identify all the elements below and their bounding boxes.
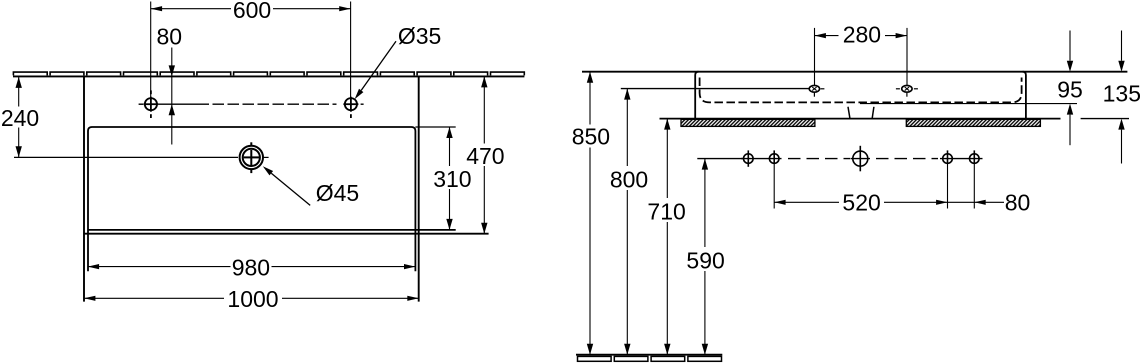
dimension 80 (front view)	[948, 201, 1005, 203]
mounting bracket hatched left	[681, 119, 815, 126]
faucet hole right (top view)	[343, 97, 358, 118]
svg-text:Ø35: Ø35	[398, 23, 441, 49]
svg-text:240: 240	[1, 105, 39, 131]
dimension 850	[589, 72, 591, 355]
svg-text:80: 80	[1005, 190, 1031, 216]
svg-text:1000: 1000	[227, 286, 278, 312]
svg-text:600: 600	[233, 0, 271, 23]
svg-text:Ø45: Ø45	[316, 180, 359, 206]
dimension 600	[151, 8, 351, 10]
faucet hole centerline (top view)	[139, 103, 364, 105]
svg-text:95: 95	[1057, 76, 1083, 102]
basin inner rim bottom edge (top view)	[88, 229, 456, 231]
dimension 310	[449, 127, 451, 230]
dimension 95	[1069, 31, 1071, 146]
drain hole (top view)	[240, 142, 263, 173]
extension lines below fixing circles	[774, 164, 974, 209]
fixing circle 1 (front view)	[744, 150, 754, 166]
floor tiles	[578, 356, 722, 361]
wall tiles (top view)	[13, 72, 524, 75]
dimension 135	[1121, 31, 1123, 164]
basin outer bottom edge (top view)	[84, 233, 489, 235]
dimension 800	[626, 89, 628, 355]
drain circle center (front view)	[853, 146, 868, 172]
basin outer outline right edge (top view)	[418, 76, 420, 301]
fixing circle 4 (front view)	[970, 150, 980, 163]
svg-text:590: 590	[686, 247, 724, 273]
basin inner rim top extension line (top view)	[415, 126, 455, 128]
basin left edge (front view)	[695, 72, 698, 119]
faucet hole left (top view)	[144, 90, 159, 118]
svg-text:710: 710	[647, 199, 685, 225]
svg-text:980: 980	[232, 255, 270, 281]
fixing circle 2 (front view)	[769, 150, 779, 163]
mounting bracket hatched right	[906, 119, 1040, 126]
leader and label Ø35	[361, 41, 396, 90]
top reference line (front view)	[582, 71, 1127, 73]
basin right edge (front view)	[1023, 72, 1026, 119]
drain recess tick right (front view)	[872, 107, 874, 119]
floor line	[576, 354, 722, 356]
dimension 1000	[84, 297, 419, 299]
leader and label Ø45	[271, 173, 310, 205]
dimension 470	[483, 76, 485, 233]
dimension 980	[88, 266, 416, 268]
dimension 80 (top view)	[171, 48, 173, 145]
fixing circle 3 (front view)	[943, 150, 953, 163]
svg-text:80: 80	[157, 24, 183, 50]
800 level line (front view)	[621, 88, 809, 90]
fixing hole right ellipse (front view)	[902, 85, 912, 92]
fixing hole left ellipse (front view)	[809, 85, 819, 92]
svg-text:800: 800	[610, 167, 648, 193]
dimension 520	[774, 201, 947, 203]
basin inner rim (top view)	[88, 127, 415, 271]
lower fixing centerline (front view)	[697, 158, 982, 160]
dimension 280	[815, 35, 908, 37]
dimension 590	[704, 159, 706, 355]
svg-text:520: 520	[842, 190, 880, 216]
bowl hidden outline dashed (front view)	[700, 78, 1022, 103]
svg-text:135: 135	[1103, 80, 1140, 106]
basin bottom line (front view)	[660, 118, 1061, 120]
135 level extension line (front view)	[1081, 118, 1129, 120]
svg-text:850: 850	[572, 123, 610, 149]
svg-text:280: 280	[843, 21, 881, 47]
95 level extension line (front view)	[860, 103, 1077, 105]
svg-text:470: 470	[466, 143, 504, 169]
drain recess tick left (front view)	[848, 107, 850, 119]
drain hole centerline (top view)	[14, 156, 269, 158]
dimension 280 extension lines	[815, 28, 908, 85]
dimension 600 extension lines	[151, 2, 351, 98]
svg-text:310: 310	[433, 166, 471, 192]
basin outer outline left edge (top view)	[83, 76, 85, 301]
dimension 710	[666, 119, 668, 355]
wall section line (top view)	[13, 75, 524, 77]
dimension 240	[18, 77, 20, 157]
